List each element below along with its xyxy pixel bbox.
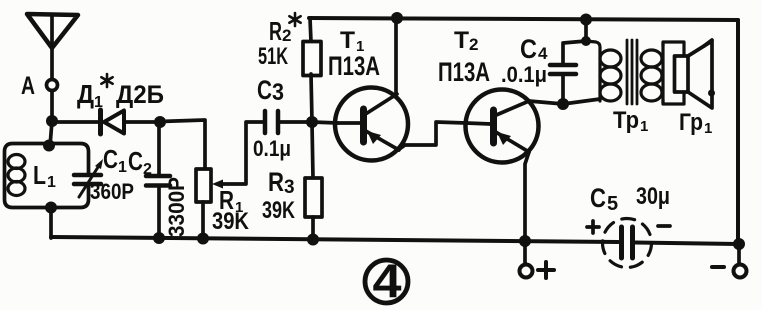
transformer Tr1 core bbox=[627, 40, 637, 104]
svg-text:0.1μ: 0.1μ bbox=[253, 136, 291, 161]
svg-text:1: 1 bbox=[47, 174, 56, 191]
wire antenna stem bbox=[50, 48, 54, 80]
svg-text:Т: Т bbox=[340, 27, 355, 54]
wire R3 to rail bbox=[311, 217, 315, 240]
junction dot base T1 bbox=[306, 116, 318, 128]
wire R2 to base junction bbox=[311, 74, 312, 122]
svg-text:2: 2 bbox=[469, 35, 478, 54]
capacitor C3 bbox=[265, 111, 278, 133]
speaker Gr1 bbox=[675, 40, 716, 108]
junction dot R3 bottom bbox=[307, 234, 319, 246]
wire C3 to base junction bbox=[278, 120, 312, 124]
wire base junction to R3 bbox=[312, 123, 313, 178]
svg-text:360Р: 360Р bbox=[90, 179, 134, 204]
resistor R1 bbox=[196, 169, 211, 202]
wire T2 collector to C4 node bbox=[529, 101, 563, 104]
wire C3 tap to R1 with arrow bbox=[212, 122, 263, 189]
wire bottom rail left bbox=[51, 237, 618, 242]
svg-text:39K: 39K bbox=[262, 197, 295, 224]
svg-text:.0.1μ: .0.1μ bbox=[501, 62, 547, 87]
svg-text:39K: 39K bbox=[212, 208, 250, 235]
svg-text:Д: Д bbox=[77, 79, 94, 109]
wire L1 bottom to rail bbox=[49, 208, 53, 239]
svg-text:4: 4 bbox=[538, 44, 548, 63]
svg-text:П13А: П13А bbox=[438, 57, 490, 87]
wire C4 bottom to node bbox=[561, 74, 565, 104]
junction dot right rail bbox=[733, 238, 745, 250]
antenna bbox=[27, 14, 78, 48]
label D1 asterisk bbox=[101, 74, 112, 87]
svg-text:C: C bbox=[257, 75, 272, 105]
svg-text:C: C bbox=[128, 146, 143, 176]
junction dot T2 emitter rail bbox=[519, 235, 531, 247]
wire T1 emitter to T2 base bbox=[398, 122, 466, 150]
svg-text:51K: 51K bbox=[258, 43, 288, 70]
junction dot antenna/diode bbox=[46, 115, 58, 127]
svg-text:Гр: Гр bbox=[679, 109, 703, 136]
wire C2 to rail bbox=[157, 186, 161, 239]
label L1 bbox=[33, 160, 56, 191]
wire C4 top to node bbox=[563, 41, 586, 65]
svg-text:30μ: 30μ bbox=[636, 183, 670, 210]
svg-text:R: R bbox=[269, 16, 282, 46]
label plus C5 bbox=[587, 221, 599, 233]
junction dot after diode bbox=[154, 116, 166, 128]
wire diode to junction bbox=[124, 120, 160, 124]
wire node to rail bbox=[584, 19, 588, 41]
coil L1 loops bbox=[8, 155, 25, 196]
label minus terminal bbox=[712, 265, 724, 269]
wire rail to R2 bbox=[310, 18, 311, 42]
label D1* D2B bbox=[77, 79, 164, 111]
wire secondary to speaker top bbox=[663, 42, 684, 56]
node A bbox=[47, 80, 58, 91]
svg-text:3: 3 bbox=[272, 79, 284, 106]
wire to minus terminal bbox=[737, 244, 741, 264]
label plus terminal bbox=[538, 262, 554, 278]
svg-text:L: L bbox=[33, 160, 46, 190]
svg-text:5: 5 bbox=[607, 193, 618, 215]
svg-text:R: R bbox=[268, 167, 284, 197]
wire to plus terminal bbox=[523, 241, 527, 264]
wire junction to C2 bbox=[157, 122, 161, 175]
junction dot C4 bottom node bbox=[557, 98, 569, 110]
label R2* bbox=[269, 16, 291, 46]
svg-text:1: 1 bbox=[640, 118, 648, 135]
resistor R2 bbox=[303, 42, 321, 76]
svg-text:Тр: Тр bbox=[613, 107, 639, 134]
label C5 bbox=[590, 183, 618, 215]
capacitor C4 bbox=[550, 65, 576, 74]
label T1 bbox=[340, 27, 364, 55]
svg-text:A: A bbox=[21, 72, 35, 100]
wire primary bottom to node bbox=[563, 99, 600, 104]
label Tr1 bbox=[613, 107, 648, 135]
label R3 bbox=[268, 167, 295, 198]
transistor T2 bbox=[466, 90, 539, 163]
junction dot C2 bottom bbox=[153, 232, 165, 244]
svg-text:C: C bbox=[103, 144, 118, 174]
label R1 bbox=[219, 185, 243, 216]
junction dot C4 top node bbox=[581, 36, 591, 46]
wire right edge bbox=[736, 20, 740, 244]
figure number 4 bbox=[365, 254, 408, 307]
wire T2 emitter down bbox=[525, 152, 529, 241]
junction dot rail transformer bbox=[580, 14, 592, 26]
svg-text:3: 3 bbox=[284, 177, 295, 198]
coil L1 tank box bbox=[5, 144, 89, 208]
svg-text:П13А: П13А bbox=[328, 51, 380, 81]
label C1 C2 bbox=[103, 144, 152, 178]
diode D1 bbox=[101, 110, 125, 134]
label T2 bbox=[454, 27, 478, 54]
wire T1 collector to rail bbox=[394, 18, 398, 93]
svg-text:1: 1 bbox=[704, 120, 712, 137]
wire junction to R1 top bbox=[160, 120, 205, 169]
wire base junction to T1 bbox=[312, 122, 338, 123]
label C4 bbox=[520, 34, 548, 64]
junction dot L1 bottom bbox=[45, 202, 57, 214]
svg-text:Д2Б: Д2Б bbox=[116, 81, 164, 109]
label R2 asterisk bbox=[289, 13, 300, 26]
wire to diode bbox=[52, 120, 99, 124]
label Gr1 bbox=[679, 109, 712, 137]
svg-text:C: C bbox=[520, 34, 537, 64]
label minus C5 bbox=[658, 224, 670, 228]
svg-text:C: C bbox=[590, 183, 606, 213]
resistor R3 bbox=[305, 178, 322, 217]
wire top rail bbox=[309, 18, 738, 20]
svg-text:1: 1 bbox=[94, 94, 103, 111]
capacitor C1 variable bbox=[74, 159, 103, 197]
svg-text:3300Р: 3300Р bbox=[164, 177, 189, 237]
wire bottom rail right bbox=[635, 243, 738, 245]
svg-text:1: 1 bbox=[118, 159, 127, 176]
transistor T1 bbox=[335, 88, 408, 161]
terminal minus bbox=[734, 265, 747, 278]
transformer Tr1 secondary bbox=[641, 43, 663, 103]
wire secondary to speaker bottom bbox=[663, 92, 684, 104]
svg-text:Т: Т bbox=[454, 27, 469, 54]
junction dot L1 top bbox=[43, 140, 55, 152]
junction dot R1 bottom bbox=[197, 233, 209, 245]
wire node A down bbox=[50, 91, 52, 147]
capacitor C2 bbox=[146, 176, 170, 186]
capacitor C5 bbox=[603, 219, 652, 268]
transformer Tr1 primary bbox=[586, 41, 621, 101]
terminal plus bbox=[520, 265, 533, 278]
svg-text:4: 4 bbox=[373, 254, 402, 307]
wire R1 to rail bbox=[201, 202, 205, 239]
junction dot T1 collector rail bbox=[391, 12, 403, 24]
